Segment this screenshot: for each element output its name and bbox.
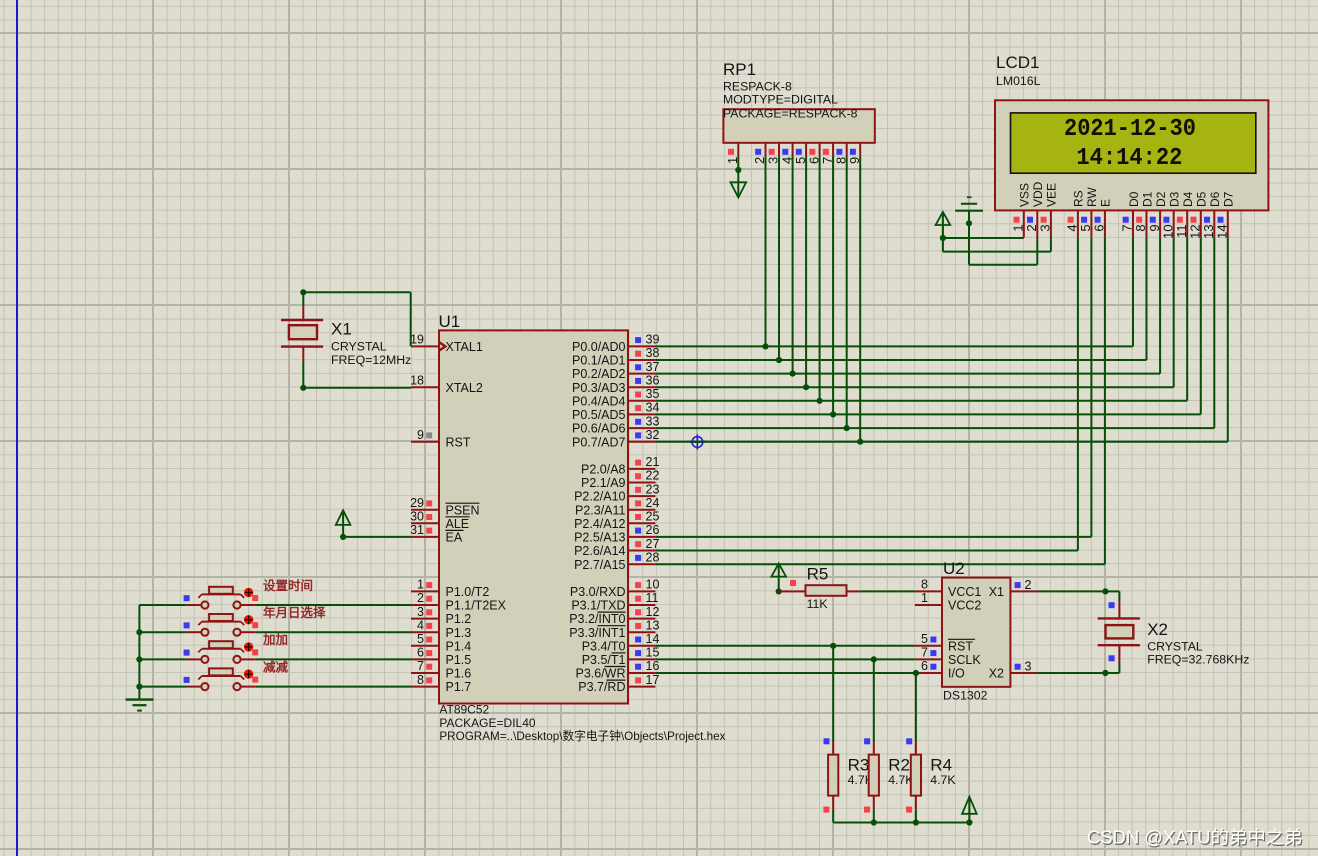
- svg-text:P1.1/T2EX: P1.1/T2EX: [446, 599, 507, 613]
- svg-text:28: 28: [646, 550, 660, 564]
- svg-text:23: 23: [646, 482, 660, 496]
- svg-text:加加: 加加: [262, 632, 288, 647]
- svg-text:1: 1: [417, 578, 424, 592]
- svg-text:PACKAGE=DIL40: PACKAGE=DIL40: [439, 716, 535, 730]
- svg-text:RW: RW: [1085, 187, 1099, 207]
- svg-text:P3.2/INT0: P3.2/INT0: [569, 612, 625, 626]
- svg-text:14: 14: [646, 632, 660, 646]
- svg-text:P2.1/A9: P2.1/A9: [581, 476, 626, 490]
- svg-text:LCD1: LCD1: [996, 53, 1039, 72]
- svg-text:14:14:22: 14:14:22: [1076, 145, 1182, 172]
- svg-text:P0.0/AD0: P0.0/AD0: [572, 340, 626, 354]
- svg-text:P2.5/A13: P2.5/A13: [574, 531, 625, 545]
- svg-text:PACKAGE=RESPACK-8: PACKAGE=RESPACK-8: [723, 107, 858, 121]
- svg-text:4.7K: 4.7K: [930, 773, 956, 787]
- svg-text:5: 5: [417, 632, 424, 646]
- svg-text:P3.4/T0: P3.4/T0: [582, 639, 626, 653]
- svg-text:5: 5: [921, 632, 928, 646]
- svg-text:6: 6: [921, 659, 928, 673]
- svg-text:P1.3: P1.3: [446, 626, 472, 640]
- svg-text:X2: X2: [989, 667, 1004, 681]
- svg-text:DS1302: DS1302: [943, 689, 988, 703]
- svg-text:P1.7: P1.7: [446, 680, 472, 694]
- svg-text:39: 39: [646, 333, 660, 347]
- svg-text:CSDN @XATU的弟中之弟: CSDN @XATU的弟中之弟: [1087, 827, 1303, 848]
- svg-text:P0.3/AD3: P0.3/AD3: [572, 381, 626, 395]
- svg-text:D6: D6: [1208, 191, 1222, 207]
- svg-text:34: 34: [646, 401, 660, 415]
- svg-text:P2.6/A14: P2.6/A14: [574, 544, 625, 558]
- svg-text:设置时间: 设置时间: [263, 578, 313, 593]
- svg-text:29: 29: [410, 496, 424, 510]
- svg-text:D3: D3: [1168, 191, 1182, 207]
- svg-text:7: 7: [921, 646, 928, 660]
- svg-text:LM016L: LM016L: [996, 74, 1041, 88]
- svg-text:R2: R2: [888, 756, 910, 775]
- svg-text:XTAL1: XTAL1: [446, 340, 483, 354]
- svg-text:7: 7: [417, 659, 424, 673]
- svg-text:31: 31: [410, 523, 424, 537]
- svg-text:38: 38: [646, 346, 660, 360]
- svg-text:24: 24: [646, 496, 660, 510]
- svg-text:P0.4/AD4: P0.4/AD4: [572, 394, 626, 408]
- svg-text:22: 22: [646, 469, 660, 483]
- svg-text:P3.7/RD: P3.7/RD: [578, 680, 625, 694]
- svg-text:P2.7/A15: P2.7/A15: [574, 558, 625, 572]
- svg-text:RP1: RP1: [723, 60, 756, 79]
- svg-text:35: 35: [646, 387, 660, 401]
- svg-text:18: 18: [410, 373, 424, 387]
- svg-text:CRYSTAL: CRYSTAL: [331, 340, 387, 354]
- svg-text:8: 8: [921, 578, 928, 592]
- svg-text:6: 6: [1092, 224, 1107, 231]
- svg-text:P0.5/AD5: P0.5/AD5: [572, 408, 626, 422]
- svg-text:6: 6: [417, 646, 424, 660]
- svg-text:1: 1: [921, 591, 928, 605]
- svg-text:减减: 减减: [263, 659, 289, 674]
- svg-text:3: 3: [417, 605, 424, 619]
- svg-text:X2: X2: [1147, 620, 1168, 639]
- svg-text:XTAL2: XTAL2: [446, 381, 483, 395]
- svg-text:P0.2/AD2: P0.2/AD2: [572, 367, 626, 381]
- svg-text:32: 32: [646, 428, 660, 442]
- svg-text:RST: RST: [446, 435, 471, 449]
- svg-text:P3.6/WR: P3.6/WR: [575, 667, 625, 681]
- svg-text:PSEN: PSEN: [446, 503, 480, 517]
- svg-text:D4: D4: [1181, 191, 1195, 207]
- svg-text:VSS: VSS: [1018, 183, 1032, 207]
- svg-text:VEE: VEE: [1045, 183, 1059, 207]
- svg-text:P2.4/A12: P2.4/A12: [574, 517, 625, 531]
- svg-text:13: 13: [646, 618, 660, 632]
- svg-text:P3.3/INT1: P3.3/INT1: [569, 626, 625, 640]
- svg-text:RST: RST: [948, 639, 973, 653]
- svg-text:VDD: VDD: [1031, 181, 1045, 207]
- svg-text:14: 14: [1215, 224, 1230, 238]
- svg-text:10: 10: [646, 578, 660, 592]
- svg-text:X1: X1: [989, 585, 1004, 599]
- svg-text:19: 19: [410, 333, 424, 347]
- svg-text:R4: R4: [930, 756, 952, 775]
- svg-text:FREQ=12MHz: FREQ=12MHz: [331, 353, 411, 367]
- svg-text:2: 2: [1025, 578, 1032, 592]
- svg-text:3: 3: [1025, 660, 1032, 674]
- svg-text:FREQ=32.768KHz: FREQ=32.768KHz: [1147, 653, 1249, 667]
- svg-text:P2.3/A11: P2.3/A11: [575, 503, 626, 517]
- svg-text:11: 11: [646, 591, 659, 605]
- svg-text:2021-12-30: 2021-12-30: [1064, 116, 1196, 143]
- svg-text:RS: RS: [1072, 190, 1086, 207]
- svg-text:26: 26: [646, 523, 660, 537]
- svg-text:P3.0/RXD: P3.0/RXD: [570, 585, 626, 599]
- svg-text:21: 21: [646, 455, 660, 469]
- svg-text:I/O: I/O: [948, 667, 965, 681]
- svg-text:25: 25: [646, 510, 660, 524]
- svg-text:P1.5: P1.5: [446, 653, 472, 667]
- svg-text:P1.6: P1.6: [446, 667, 472, 681]
- svg-text:P0.7/AD7: P0.7/AD7: [572, 435, 626, 449]
- svg-text:P3.1/TXD: P3.1/TXD: [571, 599, 625, 613]
- svg-text:P0.1/AD1: P0.1/AD1: [572, 354, 626, 368]
- svg-text:27: 27: [646, 537, 660, 551]
- svg-text:U1: U1: [439, 312, 461, 331]
- svg-text:R3: R3: [848, 756, 870, 775]
- svg-text:D0: D0: [1127, 191, 1141, 207]
- svg-text:P2.2/A10: P2.2/A10: [574, 490, 625, 504]
- svg-text:12: 12: [646, 605, 660, 619]
- svg-text:30: 30: [410, 510, 424, 524]
- svg-text:4: 4: [417, 618, 424, 632]
- svg-text:37: 37: [646, 360, 660, 374]
- svg-text:17: 17: [646, 673, 660, 687]
- svg-text:VCC1: VCC1: [948, 585, 981, 599]
- svg-text:U2: U2: [943, 559, 965, 578]
- svg-text:2: 2: [417, 591, 424, 605]
- svg-text:E: E: [1099, 199, 1113, 207]
- svg-text:R5: R5: [807, 565, 829, 584]
- svg-text:15: 15: [646, 646, 660, 660]
- svg-text:P3.5/T1: P3.5/T1: [582, 653, 626, 667]
- svg-text:P1.0/T2: P1.0/T2: [446, 585, 490, 599]
- svg-text:D7: D7: [1222, 191, 1236, 207]
- svg-text:3: 3: [1038, 224, 1053, 231]
- svg-text:33: 33: [646, 414, 660, 428]
- svg-text:PROGRAM=..\Desktop\数字电子钟\Objec: PROGRAM=..\Desktop\数字电子钟\Objects\Project…: [439, 729, 725, 743]
- svg-text:9: 9: [417, 428, 424, 442]
- svg-text:SCLK: SCLK: [948, 653, 981, 667]
- svg-text:MODTYPE=DIGITAL: MODTYPE=DIGITAL: [723, 93, 838, 107]
- svg-text:P1.2: P1.2: [446, 612, 472, 626]
- svg-text:X1: X1: [331, 320, 352, 339]
- svg-text:16: 16: [646, 659, 660, 673]
- svg-text:D5: D5: [1195, 191, 1209, 207]
- svg-text:VCC2: VCC2: [948, 599, 981, 613]
- svg-text:EA: EA: [446, 531, 463, 545]
- svg-text:8: 8: [417, 673, 424, 687]
- svg-text:ALE: ALE: [446, 517, 470, 531]
- svg-text:CRYSTAL: CRYSTAL: [1147, 639, 1203, 653]
- svg-text:D2: D2: [1154, 191, 1168, 207]
- svg-text:P0.6/AD6: P0.6/AD6: [572, 422, 626, 436]
- svg-text:RESPACK-8: RESPACK-8: [723, 80, 792, 94]
- svg-text:P1.4: P1.4: [446, 639, 472, 653]
- svg-text:11K: 11K: [807, 597, 829, 611]
- svg-text:P2.0/A8: P2.0/A8: [581, 463, 626, 477]
- svg-text:AT89C52: AT89C52: [439, 703, 489, 717]
- svg-text:36: 36: [646, 373, 660, 387]
- svg-text:年月日选择: 年月日选择: [263, 605, 326, 620]
- svg-text:D1: D1: [1140, 191, 1154, 207]
